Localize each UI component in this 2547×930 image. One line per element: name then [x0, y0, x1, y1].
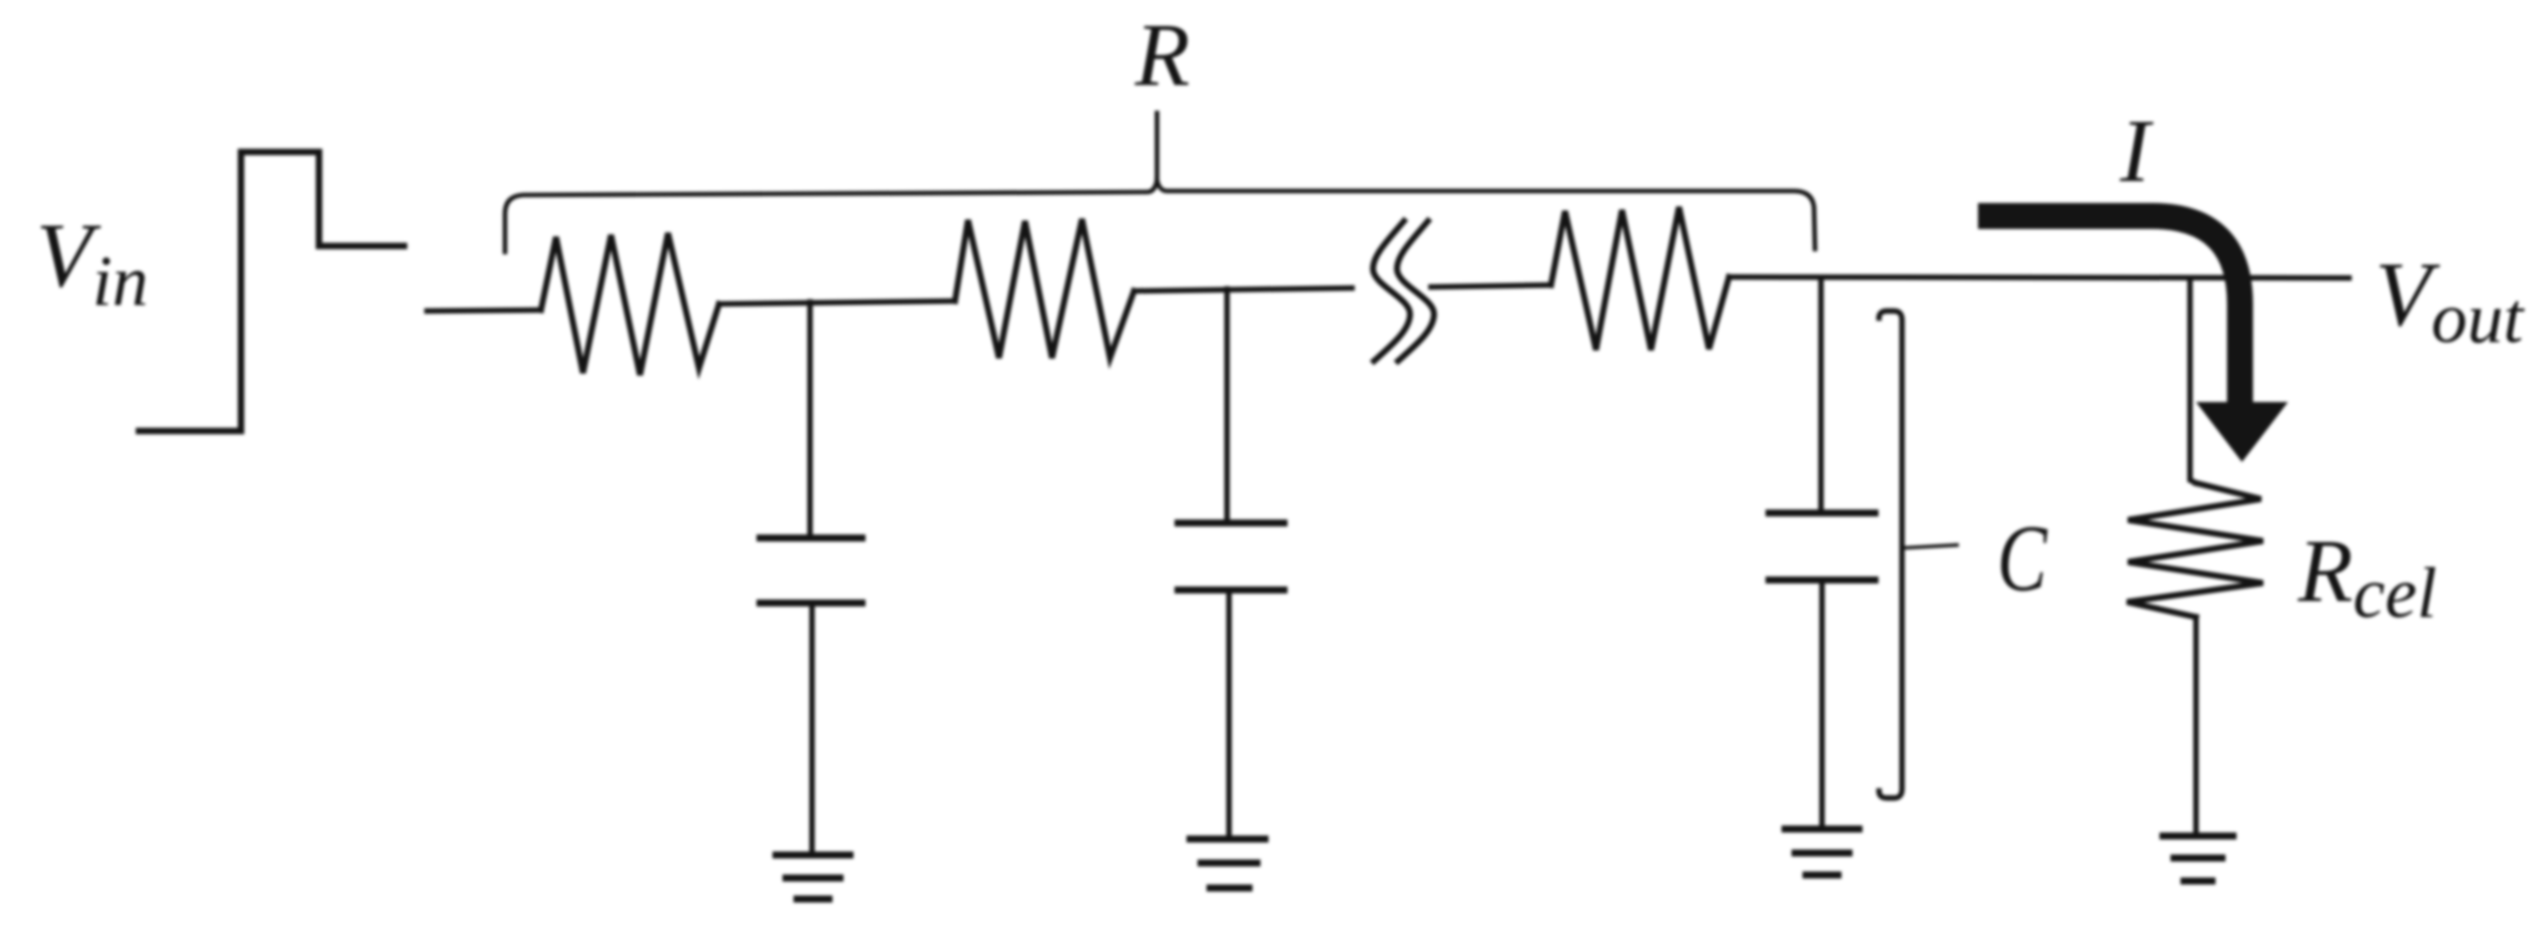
capacitor C1 [760, 538, 862, 603]
wire input [427, 310, 541, 311]
wire junction to C3 [1818, 278, 1824, 513]
capacitor C2 [1178, 523, 1284, 590]
bracket C middle tick [1902, 545, 1957, 548]
svg-text:I: I [2119, 102, 2154, 201]
wire node1 [719, 301, 955, 304]
brace R [505, 113, 1815, 252]
resistor R1 [541, 233, 719, 375]
current arrow I [1991, 216, 2240, 404]
wire node2 to R3 [1431, 285, 1551, 287]
ground G2 [1190, 839, 1265, 888]
ground G1 [776, 855, 850, 899]
svg-text:C: C [1997, 505, 2048, 611]
resistor Rcel [2127, 483, 2263, 617]
wire C2 to ground [1226, 590, 1232, 839]
wire node2 [1134, 288, 1352, 291]
ground G4 [2163, 836, 2233, 881]
break symbol (line continuation squiggle) [1373, 221, 1434, 361]
voltage step source symbol [139, 152, 404, 431]
wire C3 to ground [1819, 580, 1825, 829]
wire junction to C2 [1224, 289, 1230, 523]
capacitor C3 [1769, 513, 1875, 580]
svg-text:Rcel: Rcel [2297, 522, 2437, 633]
wire junction to C1 [807, 302, 813, 538]
svg-text:Vout: Vout [2375, 243, 2525, 358]
wire output node [1729, 277, 2349, 278]
wire C1 to ground [809, 603, 815, 855]
wire Rcel to ground [2193, 617, 2199, 836]
resistor R2 [955, 219, 1134, 358]
svg-text:R: R [1134, 6, 1190, 105]
bracket C [1879, 311, 1902, 798]
wire junction to Rcel [2190, 278, 2196, 483]
ground G3 [1785, 829, 1859, 875]
resistor R3 [1551, 207, 1729, 350]
svg-text:Vin: Vin [36, 204, 148, 321]
